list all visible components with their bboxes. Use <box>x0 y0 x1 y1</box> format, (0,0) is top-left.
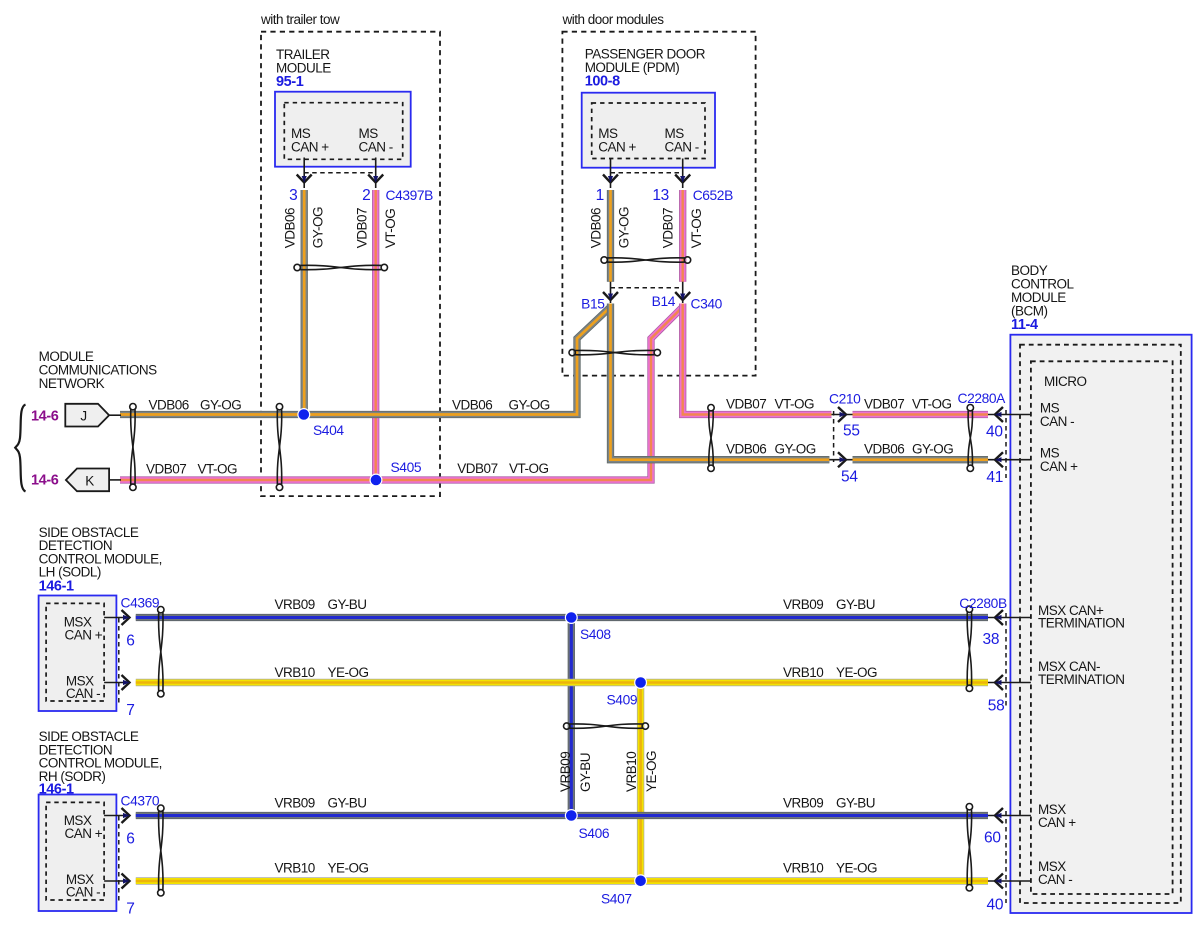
door modules option dashed box <box>562 32 755 376</box>
svg-text:YE-OG: YE-OG <box>328 861 369 876</box>
twisted pair symbol SODR <box>158 805 164 896</box>
svg-text:7: 7 <box>126 702 134 719</box>
wire VDB07 VT-OG B14 to C210 <box>683 304 832 415</box>
twisted pair symbol before C2280A <box>967 405 973 472</box>
svg-text:K: K <box>85 474 94 489</box>
svg-text:C340: C340 <box>691 297 723 312</box>
connector C340 dashed link <box>611 287 683 289</box>
connector C4370 dashed line <box>118 816 120 904</box>
wire VDB06 GY-OG B15 to C210 <box>611 304 830 460</box>
svg-text:B14: B14 <box>652 294 676 309</box>
svg-text:YE-OG: YE-OG <box>328 665 369 680</box>
svg-text:VDB07: VDB07 <box>726 397 766 412</box>
svg-text:VRB10: VRB10 <box>275 861 315 876</box>
wire VRB09 GY-BU vertical S408-S406 <box>568 618 575 816</box>
wire lead C340 pin B15 <box>610 282 612 303</box>
wire VDB06 GY-OG J net to B15 <box>120 307 611 415</box>
arrow BCM pin58 <box>995 675 1003 690</box>
svg-text:146-1: 146-1 <box>39 782 74 798</box>
svg-text:VRB09: VRB09 <box>275 796 315 811</box>
wire lead PDM pin 13 <box>682 159 684 189</box>
wire lead C340 pin B14 <box>682 282 684 303</box>
twisted pair symbol before BCM lower <box>966 804 972 892</box>
svg-text:95-1: 95-1 <box>276 74 304 90</box>
connector C4397B dashed link <box>304 172 376 174</box>
connector J <box>65 404 109 427</box>
svg-text:CAN -: CAN - <box>66 686 100 701</box>
svg-text:GY-OG: GY-OG <box>775 442 816 457</box>
svg-text:VRB10: VRB10 <box>783 665 823 680</box>
wire VRB10 YE-OG SODL to BCM pin58 <box>136 679 988 686</box>
arrow C340 B15 <box>603 292 618 300</box>
twisted pair symbol trailer box <box>276 404 282 491</box>
wire lead from connector J <box>109 414 121 416</box>
svg-text:VT-OG: VT-OG <box>383 209 398 249</box>
arrow BCM pin40 <box>995 407 1003 422</box>
wire VRB10 YE-OG vertical S409-S407 <box>637 683 644 881</box>
wire VDB07 VT-OG trailer drop to S405 <box>372 190 379 480</box>
svg-text:7: 7 <box>126 901 134 918</box>
svg-text:CAN -: CAN - <box>1038 872 1072 887</box>
svg-text:with trailer tow: with trailer tow <box>260 12 340 27</box>
svg-text:TERMINATION: TERMINATION <box>1038 672 1125 687</box>
svg-text:VDB07: VDB07 <box>661 208 676 248</box>
twisted pair symbol mid VDB pair <box>708 405 714 472</box>
wire VDB06 GY-OG C210 to BCM pin41 <box>853 456 989 463</box>
wire lead PDM pin 1 <box>610 159 612 189</box>
svg-text:VT-OG: VT-OG <box>198 462 238 477</box>
svg-text:CAN +: CAN + <box>291 140 329 155</box>
svg-text:CAN -: CAN - <box>359 140 393 155</box>
wire lead SODL pin 6 <box>104 617 128 619</box>
svg-text:C2280A: C2280A <box>958 391 1007 406</box>
svg-text:3: 3 <box>289 187 297 204</box>
svg-text:TERMINATION: TERMINATION <box>1038 615 1125 630</box>
wire VDB07 VT-OG PDM drop pin13 <box>679 190 686 282</box>
twisted pair symbol center verticals <box>564 723 649 729</box>
svg-text:S404: S404 <box>313 423 344 438</box>
svg-text:NETWORK: NETWORK <box>39 376 105 391</box>
svg-text:S407: S407 <box>601 892 632 907</box>
trailer module U-TRM box <box>275 92 411 167</box>
trailer tow option dashed box <box>261 32 440 496</box>
arrow C340 B14 <box>675 292 690 300</box>
svg-text:55: 55 <box>843 423 860 440</box>
wire lead C210 pin 54 <box>829 459 852 461</box>
splice S404 <box>298 409 310 421</box>
svg-text:VDB07: VDB07 <box>457 461 497 476</box>
svg-text:41: 41 <box>986 469 1003 486</box>
svg-text:VT-OG: VT-OG <box>912 397 952 412</box>
wire VRB10 YE-OG SODR to BCM pin40 <box>136 877 988 884</box>
svg-text:VRB10: VRB10 <box>275 665 315 680</box>
svg-text:VRB09: VRB09 <box>275 597 315 612</box>
svg-text:GY-BU: GY-BU <box>328 796 367 811</box>
svg-text:1: 1 <box>596 187 604 204</box>
svg-text:S406: S406 <box>579 826 610 841</box>
splice S406 <box>565 810 577 822</box>
arrow C210 pin55 <box>838 407 846 422</box>
connector K <box>66 469 109 492</box>
svg-text:GY-OG: GY-OG <box>617 207 632 248</box>
svg-text:YE-OG: YE-OG <box>836 861 877 876</box>
svg-text:CAN -: CAN - <box>665 140 699 155</box>
wire lead SODR pin 7 <box>104 880 128 882</box>
svg-text:CAN -: CAN - <box>1040 414 1074 429</box>
svg-text:11-4: 11-4 <box>1011 317 1038 333</box>
splice S405 <box>370 474 382 486</box>
svg-text:GY-BU: GY-BU <box>578 753 593 792</box>
splice S409 <box>635 677 647 689</box>
svg-text:54: 54 <box>841 469 858 486</box>
splice S408 <box>565 612 577 624</box>
svg-text:with door modules: with door modules <box>562 12 665 27</box>
svg-text:38: 38 <box>983 631 1000 648</box>
wire lead from connector K <box>109 479 121 481</box>
wire lead BCM MS CAN- pin 40 <box>988 414 1031 416</box>
svg-text:GY-BU: GY-BU <box>836 597 875 612</box>
svg-text:VDB06: VDB06 <box>452 398 492 413</box>
arrow PDM pin13 <box>675 175 690 183</box>
svg-text:VDB06: VDB06 <box>589 208 604 248</box>
svg-text:C652B: C652B <box>693 188 733 203</box>
wire VDB07 VT-OG K net to B14 <box>120 307 683 480</box>
arrow trailer pin2 <box>368 175 383 183</box>
svg-text:GY-OG: GY-OG <box>509 398 550 413</box>
wire lead BCM pin 58 <box>988 682 1031 684</box>
passenger door module box <box>582 93 715 168</box>
svg-text:VRB09: VRB09 <box>783 796 823 811</box>
connector C2280B dashed line <box>1005 613 1007 706</box>
svg-text:58: 58 <box>988 698 1005 715</box>
twisted pair symbol J-K left <box>130 404 136 491</box>
wire VDB06 GY-OG PDM drop pin1 <box>607 190 614 282</box>
twisted pair symbol PDM inner <box>569 349 661 355</box>
svg-text:60: 60 <box>984 830 1001 847</box>
svg-text:YE-OG: YE-OG <box>644 751 659 792</box>
svg-text:13: 13 <box>652 187 669 204</box>
svg-text:S409: S409 <box>607 692 638 707</box>
svg-text:VDB06: VDB06 <box>726 442 766 457</box>
wire lead trailer pin 2 <box>375 158 377 189</box>
svg-text:GY-BU: GY-BU <box>328 597 367 612</box>
SODL module box <box>39 596 117 712</box>
twisted pair symbol SODL <box>158 607 164 698</box>
svg-text:VDB06: VDB06 <box>149 398 189 413</box>
svg-text:YE-OG: YE-OG <box>836 665 877 680</box>
svg-text:VRB10: VRB10 <box>783 861 823 876</box>
svg-text:VT-OG: VT-OG <box>689 209 704 249</box>
arrow trailer pin3 <box>297 175 312 183</box>
svg-text:2: 2 <box>362 187 370 204</box>
twisted pair symbol PDM pins <box>601 257 691 263</box>
svg-text:MICRO: MICRO <box>1044 374 1087 389</box>
connector C2280A dashed line <box>1005 410 1007 478</box>
svg-text:S405: S405 <box>391 460 422 475</box>
arrow C210 pin54 <box>838 452 846 467</box>
svg-text:GY-OG: GY-OG <box>912 442 953 457</box>
brace left of J K <box>15 405 25 492</box>
svg-text:CAN -: CAN - <box>66 885 100 900</box>
wire lead BCM pin 60 <box>988 815 1031 817</box>
wire VDB06 GY-OG trailer drop to S404 <box>301 190 308 415</box>
BCM lower connector dashed line <box>1005 811 1007 903</box>
svg-text:VT-OG: VT-OG <box>775 397 815 412</box>
svg-text:VDB06: VDB06 <box>282 208 297 248</box>
arrow BCM pin40b <box>995 874 1003 889</box>
wire lead BCM MS CAN+ pin 41 <box>988 459 1031 461</box>
BCM box <box>1010 335 1191 913</box>
svg-text:VDB07: VDB07 <box>354 208 369 248</box>
svg-text:40: 40 <box>987 897 1004 914</box>
svg-text:J: J <box>80 409 86 424</box>
arrow C4370 pin7 <box>122 874 130 889</box>
connector C652B dashed link <box>611 172 683 174</box>
svg-text:GY-BU: GY-BU <box>836 796 875 811</box>
arrow C4370 pin6 <box>122 808 130 823</box>
svg-text:C4370: C4370 <box>121 794 160 809</box>
twisted pair symbol before C2280B <box>966 606 972 692</box>
svg-text:VRB09: VRB09 <box>783 597 823 612</box>
arrow BCM pin38 <box>995 610 1003 625</box>
svg-text:C4397B: C4397B <box>386 188 434 203</box>
svg-text:VDB07: VDB07 <box>146 462 186 477</box>
wire VRB09 GY-BU SODR to BCM pin60 <box>136 812 988 819</box>
svg-text:VDB07: VDB07 <box>864 397 904 412</box>
svg-text:6: 6 <box>126 633 134 650</box>
svg-text:VRB09: VRB09 <box>558 752 573 792</box>
svg-text:C4369: C4369 <box>121 596 160 611</box>
svg-text:CAN +: CAN + <box>598 140 636 155</box>
svg-text:CAN +: CAN + <box>65 826 103 841</box>
arrow C4369 pin7 <box>122 675 130 690</box>
svg-text:40: 40 <box>986 424 1003 441</box>
arrow PDM pin1 <box>603 175 618 183</box>
connector C210 dashed line <box>833 411 835 462</box>
svg-text:VT-OG: VT-OG <box>509 461 549 476</box>
wire lead BCM pin 40 lower <box>988 880 1031 882</box>
arrow BCM pin60 <box>995 808 1003 823</box>
svg-text:CAN +: CAN + <box>65 628 103 643</box>
svg-text:6: 6 <box>126 831 134 848</box>
svg-text:B15: B15 <box>581 297 605 312</box>
wire lead C210 pin 55 <box>832 414 853 416</box>
wire lead trailer pin 3 <box>303 158 305 189</box>
svg-text:CAN +: CAN + <box>1040 459 1078 474</box>
svg-text:GY-OG: GY-OG <box>310 207 325 248</box>
svg-text:C210: C210 <box>829 392 861 407</box>
svg-text:14-6: 14-6 <box>31 409 59 425</box>
wire lead SODL pin 7 <box>104 682 128 684</box>
svg-text:VRB10: VRB10 <box>624 752 639 792</box>
arrow C4369 pin6 <box>122 610 130 625</box>
wire VDB07 VT-OG C210 to BCM pin40 <box>853 411 989 418</box>
twisted pair symbol trailer pins <box>294 264 387 270</box>
svg-text:S408: S408 <box>580 627 611 642</box>
connector C4369 dashed line <box>118 618 120 706</box>
SODR module box <box>39 795 117 912</box>
svg-text:GY-OG: GY-OG <box>200 398 241 413</box>
svg-text:100-8: 100-8 <box>585 74 620 90</box>
svg-text:C2280B: C2280B <box>959 596 1007 611</box>
splice S407 <box>635 875 647 887</box>
svg-text:VDB06: VDB06 <box>864 442 904 457</box>
svg-text:14-6: 14-6 <box>31 473 59 489</box>
wire VRB09 GY-BU SODL to BCM pin38 <box>136 614 988 621</box>
svg-text:CAN +: CAN + <box>1038 815 1076 830</box>
arrow BCM pin41 <box>995 452 1003 467</box>
wire lead BCM pin 38 <box>988 617 1031 619</box>
svg-text:146-1: 146-1 <box>39 578 74 594</box>
wire lead SODR pin 6 <box>104 815 128 817</box>
